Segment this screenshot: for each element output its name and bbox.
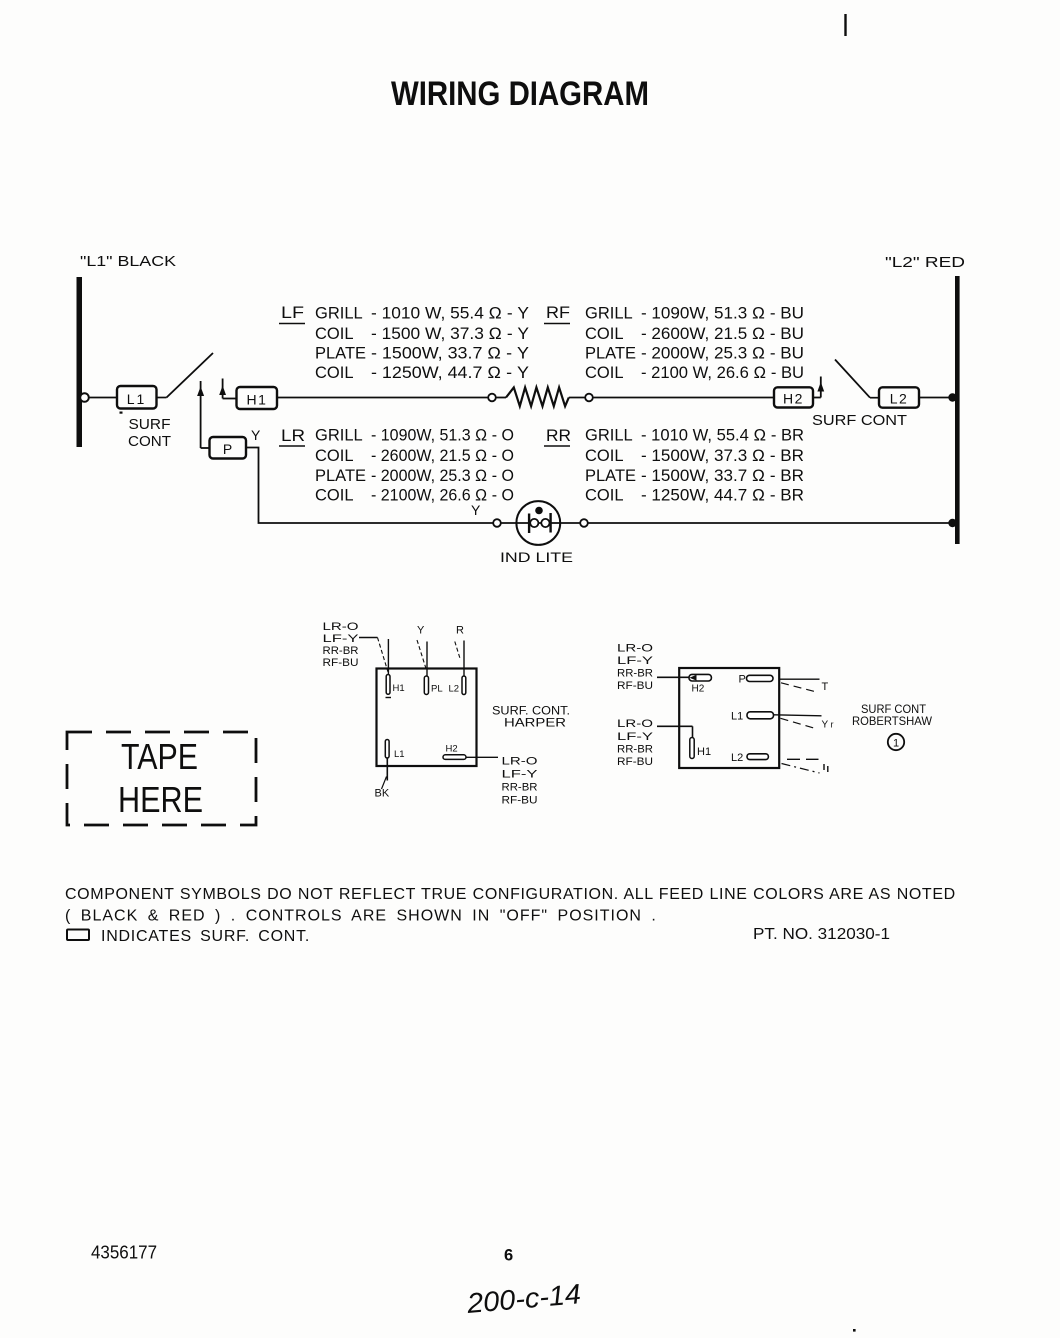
svg-text:L1: L1 xyxy=(394,749,405,760)
svg-text:LF-Y: LF-Y xyxy=(617,655,654,667)
svg-text:LR-O: LR-O xyxy=(617,643,654,655)
svg-text:RR: RR xyxy=(546,427,571,445)
svg-text:( BLACK & RED ) . CONTROLS ARE: ( BLACK & RED ) . CONTROLS ARE SHOWN IN … xyxy=(65,908,657,925)
Harper wire color list top-left xyxy=(323,621,360,669)
svg-text:COIL: COIL xyxy=(315,325,354,343)
wire H1 to resistor node xyxy=(277,397,488,399)
svg-text:P: P xyxy=(223,441,232,457)
svg-text:GRILL: GRILL xyxy=(585,427,633,445)
TAPE HERE dashed box xyxy=(67,732,256,825)
svg-text:H1: H1 xyxy=(247,392,268,408)
svg-text:RF: RF xyxy=(546,304,570,322)
switch blade right (open) xyxy=(835,360,870,398)
terminal node on L2 bar lower xyxy=(948,519,956,527)
svg-text:- 1500 W, 37.3 Ω - Y: - 1500 W, 37.3 Ω - Y xyxy=(371,325,529,343)
svg-text:INDICATES SURF. CONT.: INDICATES SURF. CONT. xyxy=(101,928,310,945)
svg-text:HARPER: HARPER xyxy=(504,716,566,730)
svg-text:"L1" BLACK: "L1" BLACK xyxy=(80,253,176,270)
svg-text:TAPE: TAPE xyxy=(121,736,198,777)
svg-text:COIL: COIL xyxy=(585,325,624,343)
speck below L1 box xyxy=(120,412,123,414)
L2 feed bus bar xyxy=(955,276,960,544)
indicator light IND LITE xyxy=(516,501,560,545)
L1 feed bus bar xyxy=(77,277,83,447)
svg-text:Y: Y xyxy=(417,625,425,637)
surface control terminal box L1 xyxy=(117,386,157,409)
label SURF CONT left xyxy=(128,417,171,450)
bottom registration dot xyxy=(853,1329,856,1332)
svg-text:COIL: COIL xyxy=(585,447,624,465)
svg-text:H1: H1 xyxy=(697,746,711,758)
wire P to indicator branch xyxy=(246,448,493,524)
svg-text:LR: LR xyxy=(281,427,305,445)
Robertshaw pin L2 xyxy=(731,752,768,764)
svg-text:RR-BR: RR-BR xyxy=(323,645,359,657)
surf cont legend symbol xyxy=(67,930,89,941)
svg-text:- 2600W, 21.5 Ω - BU: - 2600W, 21.5 Ω - BU xyxy=(641,325,804,343)
heater terminal box H1 xyxy=(237,387,278,409)
svg-text:L2: L2 xyxy=(731,752,743,764)
svg-text:HERE: HERE xyxy=(118,779,203,820)
Harper pin PL xyxy=(424,676,428,695)
svg-text:IND LITE: IND LITE xyxy=(500,549,573,565)
terminal node on L1 bar xyxy=(80,393,89,402)
RR load table xyxy=(544,427,804,505)
contact arrow to H1 xyxy=(219,379,226,399)
terminal node on L2 bar upper xyxy=(948,393,956,401)
wire from pin L1 down xyxy=(386,758,388,781)
svg-text:L1: L1 xyxy=(731,711,743,723)
wire arrow to P box xyxy=(201,447,210,449)
wire L2 box to bus xyxy=(919,397,950,399)
svg-text:PLATE: PLATE xyxy=(585,345,636,363)
leader list to pin H1 xyxy=(657,725,693,727)
svg-text:LF-Y: LF-Y xyxy=(323,633,360,645)
leader R to pin L2 xyxy=(455,642,461,661)
Harper connector outline xyxy=(377,669,477,767)
svg-text:PLATE: PLATE xyxy=(315,345,366,363)
svg-text:PL: PL xyxy=(431,684,443,695)
svg-text:- 2000W, 25.3 Ω - BU: - 2000W, 25.3 Ω - BU xyxy=(641,345,804,363)
svg-text:R: R xyxy=(456,625,464,637)
svg-text:COIL: COIL xyxy=(315,364,354,382)
wire node to L2 bar xyxy=(588,522,950,524)
svg-text:ROBERTSHAW: ROBERTSHAW xyxy=(852,714,933,728)
svg-text:- 1010 W, 55.4 Ω - BR: - 1010 W, 55.4 Ω - BR xyxy=(641,427,804,445)
svg-text:PT. NO. 312030-1: PT. NO. 312030-1 xyxy=(753,926,890,943)
svg-text:RF-BU: RF-BU xyxy=(323,657,359,669)
leader from list to pin H1 xyxy=(359,637,378,639)
wire into pin H1 xyxy=(387,639,389,674)
circled 1 xyxy=(888,734,904,750)
Harper pin H1 xyxy=(386,675,390,695)
svg-text:SURF CONT: SURF CONT xyxy=(812,413,907,429)
svg-text:P: P xyxy=(739,674,746,686)
svg-text:H2: H2 xyxy=(692,684,705,695)
svg-text:RF-BU: RF-BU xyxy=(617,756,653,768)
LR load table xyxy=(279,427,514,505)
svg-text:LR-O: LR-O xyxy=(323,621,360,633)
svg-text:COMPONENT SYMBOLS DO NOT REFLE: COMPONENT SYMBOLS DO NOT REFLECT TRUE CO… xyxy=(65,886,956,903)
svg-text:LF-Y: LF-Y xyxy=(502,769,539,781)
svg-text:"L2" RED: "L2" RED xyxy=(885,254,965,271)
wire node to resistor xyxy=(496,397,506,399)
svg-text:COIL: COIL xyxy=(585,487,624,505)
svg-text:Y: Y xyxy=(251,427,261,443)
wire node to indicator xyxy=(501,522,517,524)
wire arrow to H1 box xyxy=(223,398,237,400)
svg-text:- 1090W, 51.3 Ω - O: - 1090W, 51.3 Ω - O xyxy=(371,427,514,445)
leader Y to pin PL xyxy=(417,640,426,670)
svg-text:- 1250W, 44.7 Ω - Y: - 1250W, 44.7 Ω - Y xyxy=(371,364,529,382)
svg-text:Y: Y xyxy=(471,502,481,518)
svg-text:1: 1 xyxy=(893,738,899,750)
svg-text:LR-O: LR-O xyxy=(502,756,539,768)
svg-text:T: T xyxy=(822,681,829,693)
svg-text:6: 6 xyxy=(504,1247,513,1265)
svg-text:- 1250W, 44.7 Ω - BR: - 1250W, 44.7 Ω - BR xyxy=(641,487,804,505)
wire L1 bar to L1 box xyxy=(89,397,117,399)
registration tick mark top xyxy=(844,14,846,36)
wire resistor to node xyxy=(569,397,585,399)
Robertshaw pin H2 xyxy=(689,674,711,694)
svg-text:PLATE: PLATE xyxy=(315,467,366,485)
node circle left of resistor xyxy=(488,394,496,402)
Robertshaw pin H1 xyxy=(690,738,711,759)
svg-text:RF-BU: RF-BU xyxy=(617,680,653,692)
Robertshaw pin L1 xyxy=(731,711,774,723)
svg-text:- 1500W, 33.7 Ω - BR: - 1500W, 33.7 Ω - BR xyxy=(641,467,804,485)
svg-text:LF-Y: LF-Y xyxy=(617,731,654,743)
svg-text:- 2100 W, 26.6 Ω - BU: - 2100 W, 26.6 Ω - BU xyxy=(641,364,804,382)
svg-text:- 2100W, 26.6 Ω - O: - 2100W, 26.6 Ω - O xyxy=(371,487,514,505)
leader pin P right xyxy=(779,678,819,680)
svg-text:WIRING DIAGRAM: WIRING DIAGRAM xyxy=(391,75,649,113)
svg-text:- 1500W, 33.7 Ω - Y: - 1500W, 33.7 Ω - Y xyxy=(371,345,529,363)
svg-text:PLATE: PLATE xyxy=(585,467,636,485)
resistor element (surface unit) xyxy=(506,387,569,406)
svg-text:GRILL: GRILL xyxy=(585,305,633,323)
svg-text:4356177: 4356177 xyxy=(91,1243,157,1263)
svg-text:- 1090W, 51.3 Ω - BU: - 1090W, 51.3 Ω - BU xyxy=(641,305,804,323)
svg-text:RR-BR: RR-BR xyxy=(617,744,653,756)
svg-text:- 2600W, 21.5 Ω - O: - 2600W, 21.5 Ω - O xyxy=(371,447,514,465)
heater terminal box H2 xyxy=(774,387,813,407)
svg-text:GRILL: GRILL xyxy=(315,305,363,323)
svg-text:L2: L2 xyxy=(449,684,460,695)
leader pin L1 right xyxy=(774,715,822,716)
leader list to pin H2 xyxy=(657,676,689,678)
svg-text:- 1010 W, 55.4 Ω - Y: - 1010 W, 55.4 Ω - Y xyxy=(371,305,529,323)
svg-text:SURF: SURF xyxy=(129,417,171,433)
svg-text:COIL: COIL xyxy=(315,487,354,505)
svg-text:LR-O: LR-O xyxy=(617,718,654,730)
svg-text:L2: L2 xyxy=(890,391,909,407)
control terminal box P xyxy=(210,437,247,459)
svg-text:RF-BU: RF-BU xyxy=(502,795,538,807)
LF load table xyxy=(279,304,529,382)
node circle right of resistor xyxy=(585,394,593,402)
svg-text:RR-BR: RR-BR xyxy=(617,668,653,680)
svg-text:COIL: COIL xyxy=(315,447,354,465)
svg-text:RR-BR: RR-BR xyxy=(502,782,538,794)
surface control terminal box L2 xyxy=(879,387,919,407)
svg-text:LF: LF xyxy=(281,304,304,322)
Robertshaw wire color list lower-left xyxy=(617,718,654,768)
svg-text:r: r xyxy=(831,720,834,730)
RF load table xyxy=(544,304,804,382)
leader pin L2 right dashed xyxy=(787,758,819,760)
svg-text:- 1500W, 37.3 Ω - BR: - 1500W, 37.3 Ω - BR xyxy=(641,447,804,465)
wire node to H2 xyxy=(593,397,774,399)
svg-text:COIL: COIL xyxy=(585,364,624,382)
Robertshaw wire color list upper-left xyxy=(617,643,654,693)
Harper wire color list bottom-right xyxy=(502,756,539,807)
svg-text:L1: L1 xyxy=(127,391,147,407)
svg-text:H2: H2 xyxy=(783,391,804,407)
svg-text:GRILL: GRILL xyxy=(315,427,363,445)
node circle left of indicator xyxy=(493,519,501,527)
Harper pin L1 xyxy=(385,740,389,759)
svg-text:Y: Y xyxy=(822,720,829,731)
svg-text:CONT: CONT xyxy=(128,434,171,450)
svg-text:BK: BK xyxy=(375,788,390,800)
svg-text:H2: H2 xyxy=(446,744,458,755)
svg-text:H1: H1 xyxy=(393,683,405,694)
contact arrow to P xyxy=(197,381,204,448)
svg-text:- 2000W, 25.3 Ω - O: - 2000W, 25.3 Ω - O xyxy=(371,467,514,485)
contact arrow at H2 xyxy=(817,377,824,398)
Robertshaw pin P xyxy=(739,674,774,686)
wire indicator to node xyxy=(560,522,580,524)
switch blade left (open) xyxy=(157,397,167,399)
node circle right of indicator xyxy=(580,519,588,527)
wire H2 to contact arrow xyxy=(813,397,821,399)
Robertshaw connector outline xyxy=(679,668,779,768)
leader from pin H2 to list xyxy=(466,756,498,758)
